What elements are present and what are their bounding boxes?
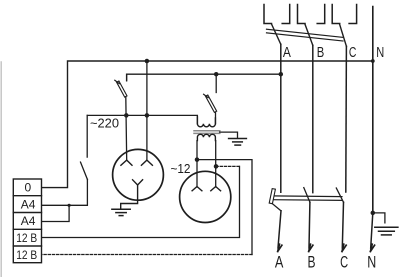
svg-text:~12: ~12: [171, 161, 191, 176]
breaker QF input contact B left: [298, 5, 306, 24]
svg-text:C: C: [340, 253, 348, 271]
wire 12V circuit inner dashed: [216, 165, 240, 167]
arrow B: [309, 244, 313, 251]
wire 12V outer dashed bottom to terminal: [42, 254, 253, 256]
ground at N: [375, 227, 398, 235]
svg-text:B: B: [317, 45, 325, 61]
socket XS1 outline: [113, 149, 164, 200]
output lead C: [342, 202, 343, 248]
node transformer switch tap: [214, 72, 219, 77]
output lead A: [278, 211, 281, 248]
node N tap on bus: [145, 59, 150, 64]
transformer T1 core: [194, 131, 220, 134]
socket XS1 right contact: [141, 160, 152, 165]
switch QS linkage bar: [272, 196, 343, 201]
svg-text:0: 0: [25, 181, 32, 195]
node lamp left tap: [124, 113, 129, 118]
phase line C: [345, 46, 348, 192]
arrow A: [278, 244, 282, 251]
svg-text:A: A: [283, 45, 291, 61]
output lead N: [371, 213, 373, 248]
switch SA1 fixed contact: [126, 74, 128, 80]
switch QS blade B: [304, 188, 310, 203]
ground under XS1: [112, 209, 130, 215]
wire 220V rail to lamp and transformer primary: [87, 115, 197, 123]
svg-text:C: C: [349, 45, 357, 61]
wire 12V inner vertical and bottom: [42, 166, 240, 237]
svg-text:N: N: [367, 253, 376, 271]
breaker QF linkage bar: [267, 29, 344, 41]
node lamp right tap: [145, 113, 150, 118]
node N bus junction: [371, 59, 375, 63]
svg-text:A: A: [275, 253, 284, 271]
switch SA3 blade: [81, 162, 88, 179]
breaker QF blade A: [272, 24, 281, 44]
terminal block outline: [13, 179, 41, 263]
lamp XS2 outline: [180, 171, 231, 222]
wire SA1 to lamp XS1 left prong: [125, 97, 128, 160]
node N ground tap: [371, 211, 376, 216]
svg-text:12 В: 12 В: [16, 231, 37, 245]
switch QS blade A: [272, 204, 281, 211]
wire secondary left to lamp XS2: [196, 141, 198, 187]
wire SA2 to transformer primary: [215, 112, 217, 124]
scan edge artifact: [0, 62, 2, 277]
wire phase-A tap L2: [127, 74, 281, 81]
svg-text:~220: ~220: [90, 116, 119, 131]
svg-text:12 В: 12 В: [16, 248, 37, 262]
node A4 junction: [68, 204, 71, 207]
ground at transformer core: [229, 139, 247, 146]
switch SA2 fixed contact: [215, 74, 217, 92]
phase line B: [312, 45, 314, 192]
breaker QF blade C: [340, 25, 347, 47]
breaker QF input contact B right: [317, 5, 325, 24]
wire N bus to lamp XS1 right prong: [146, 61, 148, 160]
switch SA1 blade: [115, 80, 127, 97]
svg-text:A4: A4: [21, 197, 36, 211]
lamp XS2 left contact: [192, 187, 202, 191]
output lead B: [308, 202, 311, 248]
wire N to ground: [373, 213, 385, 223]
breaker QF input contact A right: [282, 5, 290, 24]
svg-text:A4: A4: [21, 214, 36, 228]
breaker QF input contact C left: [332, 5, 340, 24]
wire neutral: terminal 0 to N bus: [42, 61, 373, 188]
wire secondary right to lamp XS2: [215, 141, 217, 187]
transformer T1 primary winding: [197, 117, 215, 127]
wire left rail down to switch SA3: [86, 115, 88, 157]
socket XS1 earth contact: [121, 180, 143, 209]
node L2 on phase A: [279, 72, 284, 77]
node secondary right tap: [214, 164, 219, 169]
socket XS1 left contact: [121, 160, 132, 165]
wire SA3 to terminals A4: [42, 179, 88, 205]
breaker QF input contact C right: [349, 5, 357, 24]
wire core to ground: [220, 132, 238, 138]
wire 12V circuit outer: [197, 160, 252, 255]
arrow C: [342, 244, 346, 251]
neutral line N: [372, 7, 374, 214]
phase line A: [280, 44, 282, 192]
switch QS handle: [269, 189, 275, 204]
breaker QF input contact A left: [264, 5, 272, 24]
lamp XS2 right contact: [211, 187, 221, 191]
node secondary left tap: [195, 157, 200, 162]
svg-text:B: B: [308, 253, 316, 271]
svg-text:N: N: [376, 45, 384, 61]
transformer T1 secondary winding: [197, 134, 215, 140]
breaker QF blade B: [305, 24, 313, 45]
switch SA2 blade: [204, 94, 217, 112]
arrow N: [370, 244, 374, 251]
wire terminal A4 second riser: [42, 205, 70, 221]
switch QS blade C: [336, 188, 343, 202]
